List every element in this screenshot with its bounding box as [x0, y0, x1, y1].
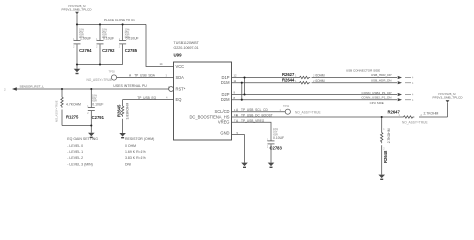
wire D1P-D2P link: [244, 78, 246, 95]
off-page arrows right: [398, 76, 402, 79]
svg-text:9: 9: [234, 91, 236, 95]
svg-text:C2791: C2791: [92, 115, 105, 120]
ground GND pin: [241, 163, 248, 168]
wire D2P: [232, 94, 398, 96]
svg-text:TUSB1120WBT: TUSB1120WBT: [174, 41, 200, 45]
ground decoupling caps: [74, 69, 81, 74]
svg-text:- LEVEL 3 (MIN): - LEVEL 3 (MIN): [67, 162, 93, 166]
svg-text:R2627: R2627: [282, 72, 295, 77]
svg-text:4: 4: [166, 96, 168, 100]
svg-text:RST*: RST*: [176, 87, 186, 92]
svg-text:2 0OHM: 2 0OHM: [313, 74, 325, 78]
svg-text:USB_HDR_DP: USB_HDR_DP: [371, 73, 392, 77]
svg-text:TP_USB_EQ: TP_USB_EQ: [137, 96, 156, 100]
svg-text:2: 2: [73, 46, 75, 48]
svg-text:8: 8: [234, 96, 236, 100]
IC U99 pin names: [176, 64, 231, 135]
svg-text:4: 4: [412, 94, 414, 97]
capacitor C2783: [268, 140, 275, 142]
testpoint TP31: [285, 109, 290, 114]
testpoint TP30: [111, 75, 116, 80]
svg-text:2 0OHM: 2 0OHM: [313, 79, 325, 83]
svg-text:R2644: R2644: [282, 78, 295, 83]
svg-text:R2645: R2645: [116, 104, 121, 117]
svg-text:PLACE CLOSE TO U1: PLACE CLOSE TO U1: [104, 18, 135, 22]
svg-text:EQ GAIN SETTING: EQ GAIN SETTING: [67, 137, 98, 141]
svg-text:U99: U99: [174, 52, 183, 57]
power flag right: [446, 100, 450, 103]
wire R1275/C2791 bottom join: [62, 125, 91, 127]
svg-text:3.83KOHM: 3.83KOHM: [125, 103, 129, 120]
table EQ gain setting: [67, 137, 154, 167]
wire D1M: [232, 82, 299, 84]
power flag top-left: [75, 12, 79, 15]
svg-text:USB CONNECTOR SIDE: USB CONNECTOR SIDE: [346, 68, 380, 72]
svg-text:CONN_USB2_P1_DN: CONN_USB2_P1_DN: [361, 96, 391, 100]
svg-text:2.7KOHM: 2.7KOHM: [424, 112, 439, 116]
wire D1M-D2M link: [241, 83, 243, 100]
svg-text:1.00UF: 1.00UF: [80, 37, 91, 41]
wire SENSOR_RST_L: [17, 88, 169, 90]
junction rail caps: [76, 23, 124, 25]
off-page arrow SENSOR_RST_L: [12, 87, 17, 91]
svg-text:5: 5: [237, 131, 239, 135]
svg-text:2: 2: [4, 87, 6, 91]
wire D2M: [232, 99, 398, 101]
svg-text:10%16VX5R: 10%16VX5R: [92, 94, 98, 102]
svg-text:VCC: VCC: [176, 64, 185, 69]
svg-text:0.10UF: 0.10UF: [103, 37, 114, 41]
junction node RST: [61, 88, 92, 127]
svg-text:RESISTOR (OHM): RESISTOR (OHM): [125, 137, 154, 141]
svg-text:NO_ASSY=TRUE: NO_ASSY=TRUE: [295, 110, 321, 114]
svg-text:2.7KOHM: 2.7KOHM: [387, 128, 391, 143]
IC U99 box: [174, 62, 232, 140]
svg-text:TP_USB_SDA: TP_USB_SDA: [134, 73, 156, 77]
svg-text:R1275: R1275: [66, 114, 79, 119]
resistor R1275 body: [61, 96, 63, 108]
svg-text:A: A: [129, 73, 132, 77]
svg-text:PP3V3_SMB_TPLCD: PP3V3_SMB_TPLCD: [62, 7, 93, 11]
svg-text:1.69 K R=1%: 1.69 K R=1%: [125, 150, 146, 154]
resistor R2644 body: [298, 82, 310, 84]
capacitor C2794 leads: [76, 24, 78, 40]
resistor R2645 body: [121, 105, 123, 117]
svg-text:TP_USB_VREG: TP_USB_VREG: [241, 119, 265, 123]
wire rail to VCC: [146, 24, 174, 66]
capacitor C2785 leads: [122, 24, 124, 40]
svg-text:0.10UF: 0.10UF: [92, 102, 103, 106]
svg-text:4: 4: [412, 99, 414, 102]
ground R2645: [119, 133, 126, 138]
wire R2647 row: [382, 116, 402, 118]
svg-text:3: 3: [166, 73, 168, 77]
svg-text:C2785: C2785: [125, 48, 138, 53]
svg-text:DC_BOOST/ENA_HS: DC_BOOST/ENA_HS: [189, 114, 229, 119]
svg-text:3.83 K R=1%: 3.83 K R=1%: [125, 156, 146, 160]
svg-text:- LEVEL 2: - LEVEL 2: [67, 156, 83, 160]
svg-text:CPU SIDE: CPU SIDE: [370, 101, 384, 105]
IC U99 pin numbers: [160, 62, 239, 135]
svg-text:USB_HDR_DN: USB_HDR_DN: [371, 79, 392, 83]
svg-text:1: 1: [295, 74, 297, 78]
svg-text:USES INTERNAL PU: USES INTERNAL PU: [113, 84, 147, 88]
svg-text:EQ: EQ: [176, 97, 182, 102]
svg-text:0.010UF: 0.010UF: [126, 37, 139, 41]
resistor R2648 body: [381, 131, 383, 143]
capacitor C2791 leads: [90, 89, 92, 107]
svg-text:TP31: TP31: [283, 104, 290, 108]
wire decoupling ground rail: [77, 64, 123, 66]
junction ground rail: [76, 63, 101, 65]
svg-text:2: 2: [383, 148, 385, 151]
wire SCL/CD: [232, 111, 286, 113]
ground C2783: [268, 163, 275, 168]
junction node D1P/D2P: [243, 76, 245, 95]
svg-text:R2648: R2648: [383, 150, 388, 163]
svg-text:1: 1: [383, 128, 385, 131]
svg-text:C2792: C2792: [102, 48, 115, 53]
capacitor C2792 leads: [99, 24, 101, 40]
ground C2791: [88, 133, 95, 138]
wire EQ: [123, 99, 174, 101]
svg-text:0.10UF: 0.10UF: [273, 136, 284, 140]
resistor R1275 leads: [61, 89, 63, 96]
svg-text:2: 2: [96, 46, 98, 48]
resistor R2648 leads: [381, 117, 383, 131]
wire decoupling rail: [77, 23, 146, 25]
svg-text:NO_ASSY=TRUE: NO_ASSY=TRUE: [402, 121, 428, 125]
svg-text:D1M: D1M: [221, 80, 230, 85]
svg-text:SCL/CD: SCL/CD: [214, 109, 229, 114]
svg-text:TP_USB_SCL_CD: TP_USB_SCL_CD: [241, 108, 268, 112]
svg-text:C2783: C2783: [270, 145, 283, 150]
svg-text:4: 4: [412, 82, 414, 85]
svg-text:NO_ASSY=TRUE: NO_ASSY=TRUE: [87, 78, 113, 82]
resistor R2645 leads: [122, 100, 124, 105]
svg-text:1: 1: [295, 79, 297, 83]
junction node ENA_HS divider: [381, 116, 383, 118]
wire VREG: [232, 122, 272, 140]
ground R2648: [378, 175, 385, 180]
svg-text:0 OHM: 0 OHM: [125, 144, 136, 148]
svg-text:PP3V3_SMB_TPLCD: PP3V3_SMB_TPLCD: [433, 96, 464, 100]
wire SDA: [117, 77, 174, 79]
svg-text:TP30: TP30: [109, 70, 116, 74]
svg-text:14: 14: [160, 62, 163, 66]
svg-text:4: 4: [412, 77, 414, 80]
svg-text:GND: GND: [220, 130, 229, 135]
svg-text:C2794: C2794: [79, 48, 92, 53]
svg-text:SENSOR_RST_L: SENSOR_RST_L: [20, 85, 45, 89]
svg-text:SDA: SDA: [176, 75, 185, 80]
svg-text:DNI: DNI: [125, 162, 131, 166]
svg-text:CONN_USB2_P1_DP: CONN_USB2_P1_DP: [362, 91, 392, 95]
resistor R2647 body: [402, 116, 414, 118]
wire D1P: [232, 77, 299, 79]
svg-text:D2M: D2M: [221, 97, 230, 102]
power rail PP3V3_SMB_TPLCD vertical drop: [76, 14, 78, 24]
svg-text:- LEVEL 1: - LEVEL 1: [67, 150, 83, 154]
wire DC_BOOST/ENA_HS: [232, 116, 382, 118]
svg-text:TP_USB_DC_BOOST: TP_USB_DC_BOOST: [241, 114, 273, 118]
svg-text:NO_ASSY=TRUE: NO_ASSY=TRUE: [55, 100, 59, 122]
svg-text:2: 2: [87, 113, 89, 115]
svg-text:- LEVEL 0: - LEVEL 0: [67, 144, 83, 148]
junction node D1M/D2M: [241, 82, 243, 101]
svg-text:2: 2: [119, 46, 121, 48]
svg-text:4.7KOHM: 4.7KOHM: [66, 103, 81, 107]
wire GND pin: [232, 135, 245, 163]
resistor R2627 body: [298, 76, 310, 78]
RST bubble: [169, 87, 174, 92]
svg-text:12: 12: [234, 74, 237, 78]
svg-text:VREG: VREG: [218, 120, 230, 125]
svg-text:11: 11: [234, 79, 237, 83]
svg-text:G220-10697-01: G220-10697-01: [174, 46, 199, 50]
